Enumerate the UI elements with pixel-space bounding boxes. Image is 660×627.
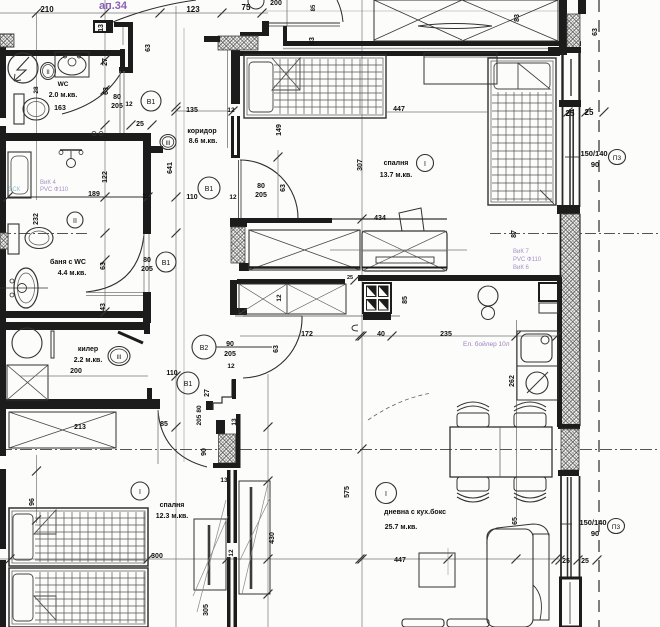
svg-text:25: 25 (562, 558, 570, 565)
svg-text:13.7 м.кв.: 13.7 м.кв. (380, 172, 412, 179)
svg-text:12: 12 (229, 194, 237, 201)
svg-text:13: 13 (231, 418, 238, 426)
svg-text:235: 235 (440, 331, 452, 338)
svg-text:262: 262 (509, 375, 516, 387)
svg-text:307: 307 (357, 159, 364, 171)
svg-text:87: 87 (511, 230, 518, 238)
svg-text:135: 135 (186, 107, 198, 114)
svg-text:205: 205 (196, 414, 203, 425)
svg-text:90: 90 (226, 341, 234, 348)
svg-text:40: 40 (377, 331, 385, 338)
svg-text:ВиК 6: ВиК 6 (513, 265, 530, 271)
svg-text:232: 232 (33, 213, 40, 225)
svg-text:149: 149 (276, 124, 283, 136)
svg-text:90: 90 (591, 529, 599, 538)
svg-text:III: III (116, 355, 121, 361)
svg-text:75: 75 (242, 3, 251, 12)
svg-text:В1: В1 (162, 260, 171, 267)
svg-text:8.6 м.кв.: 8.6 м.кв. (189, 138, 218, 145)
svg-text:641: 641 (167, 162, 174, 174)
svg-text:65: 65 (512, 517, 519, 525)
svg-text:63: 63 (100, 262, 107, 270)
svg-text:12: 12 (276, 294, 283, 302)
svg-text:II: II (73, 218, 77, 225)
svg-text:205: 205 (255, 192, 267, 199)
svg-text:I: I (424, 161, 426, 168)
svg-text:83: 83 (514, 14, 521, 22)
svg-text:I: I (139, 489, 141, 496)
svg-text:189: 189 (88, 191, 100, 198)
svg-text:13: 13 (98, 24, 105, 32)
svg-text:25.7 м.кв.: 25.7 м.кв. (385, 524, 417, 531)
svg-text:килер: килер (78, 346, 98, 353)
svg-text:80: 80 (143, 257, 151, 264)
svg-text:25: 25 (347, 275, 353, 281)
svg-text:90: 90 (591, 160, 599, 169)
svg-text:12: 12 (227, 107, 235, 114)
svg-text:ЭСК: ЭСК (8, 187, 21, 193)
svg-text:172: 172 (301, 331, 313, 338)
svg-text:В2: В2 (200, 345, 209, 352)
svg-text:27: 27 (204, 389, 211, 397)
svg-text:63: 63 (145, 44, 152, 52)
svg-text:ВиК 7: ВиК 7 (513, 249, 530, 255)
svg-text:150/140: 150/140 (580, 149, 607, 158)
svg-text:II: II (46, 70, 50, 76)
svg-text:80: 80 (257, 183, 265, 190)
svg-text:28: 28 (33, 86, 40, 94)
svg-text:ап.34: ап.34 (99, 0, 128, 12)
svg-text:305: 305 (203, 604, 210, 616)
svg-text:205: 205 (111, 103, 123, 110)
svg-text:12.3 м.кв.: 12.3 м.кв. (156, 513, 188, 520)
svg-text:13: 13 (220, 477, 228, 484)
svg-text:63: 63 (103, 87, 110, 95)
svg-text:110: 110 (186, 194, 197, 201)
svg-text:447: 447 (393, 106, 405, 113)
svg-text:ВиК 4: ВиК 4 (40, 180, 57, 186)
svg-text:III: III (165, 141, 170, 147)
svg-text:63: 63 (309, 37, 316, 45)
svg-text:110: 110 (166, 370, 177, 377)
svg-text:150/140: 150/140 (579, 518, 606, 527)
svg-text:П3: П3 (612, 524, 621, 531)
svg-text:2.2 м.кв.: 2.2 м.кв. (74, 357, 103, 364)
svg-text:123: 123 (186, 5, 200, 14)
svg-text:163: 163 (54, 105, 66, 112)
svg-text:205: 205 (141, 266, 153, 273)
svg-text:25: 25 (585, 108, 594, 117)
svg-text:80: 80 (196, 405, 203, 413)
svg-text:210: 210 (40, 5, 54, 14)
svg-text:25: 25 (581, 558, 589, 565)
svg-text:300: 300 (151, 553, 163, 560)
svg-text:63: 63 (592, 28, 599, 36)
svg-text:дневна с кух.бокс: дневна с кух.бокс (384, 508, 446, 516)
svg-text:В1: В1 (147, 99, 156, 106)
svg-text:85: 85 (402, 296, 409, 304)
svg-text:213: 213 (74, 424, 86, 431)
svg-text:25: 25 (136, 121, 144, 128)
svg-text:12: 12 (228, 549, 235, 557)
svg-text:2.0 м.кв.: 2.0 м.кв. (49, 92, 78, 99)
svg-text:В1: В1 (205, 186, 214, 193)
svg-text:205: 205 (224, 351, 236, 358)
svg-text:200: 200 (270, 0, 282, 7)
svg-text:спалня: спалня (384, 160, 409, 167)
svg-text:В1: В1 (184, 381, 193, 388)
svg-text:Ел. бойлер 10л: Ел. бойлер 10л (463, 340, 510, 348)
svg-text:спалня: спалня (160, 502, 185, 509)
svg-text:27: 27 (102, 58, 109, 66)
svg-text:баня с WC: баня с WC (50, 258, 86, 266)
svg-text:12: 12 (227, 363, 235, 370)
svg-text:434: 434 (374, 215, 386, 222)
svg-text:WC: WC (58, 81, 69, 88)
svg-text:122: 122 (102, 171, 109, 183)
svg-text:I: I (385, 491, 387, 498)
svg-text:25: 25 (566, 109, 575, 118)
svg-text:90: 90 (201, 448, 208, 456)
svg-text:63: 63 (273, 345, 280, 353)
svg-text:коридор: коридор (187, 128, 216, 135)
svg-text:4.4 м.кв.: 4.4 м.кв. (58, 270, 87, 277)
svg-text:43: 43 (100, 303, 107, 311)
svg-text:63: 63 (280, 184, 287, 192)
svg-text:430: 430 (269, 532, 276, 544)
svg-text:PVC Ф110: PVC Ф110 (40, 187, 69, 193)
svg-text:PVC Ф110: PVC Ф110 (513, 257, 542, 263)
svg-text:200: 200 (70, 368, 82, 375)
svg-text:80: 80 (113, 94, 121, 101)
svg-text:96: 96 (29, 498, 36, 506)
svg-text:85: 85 (160, 421, 168, 428)
svg-text:85: 85 (311, 4, 317, 11)
svg-text:12: 12 (142, 193, 150, 200)
svg-text:12: 12 (125, 101, 133, 108)
svg-text:575: 575 (344, 486, 351, 498)
svg-text:447: 447 (394, 557, 406, 564)
svg-text:П3: П3 (613, 155, 622, 162)
